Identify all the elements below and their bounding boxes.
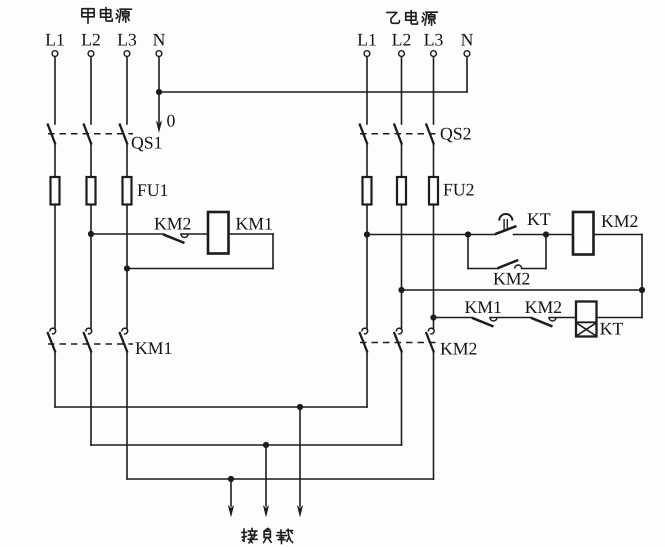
terminal L1 left xyxy=(52,51,58,57)
NO contact KM2 (self hold) xyxy=(498,260,519,268)
wire R3 to bus C xyxy=(433,353,435,480)
wire KM2 contact to KM1 coil xyxy=(181,233,208,235)
time-delay contact KT xyxy=(495,226,517,234)
node bus C tap xyxy=(228,476,234,482)
contactor KM2 pole 2 xyxy=(396,328,402,334)
fuse FU2 pole 3 xyxy=(429,177,438,205)
wire KM2 coil out xyxy=(594,234,643,236)
contactor KM2 pole 1 xyxy=(362,328,368,334)
wire L3 right drop xyxy=(433,57,435,124)
terminal L2 right xyxy=(399,51,405,57)
wire L1 to bus A xyxy=(54,353,56,408)
wire bus A xyxy=(55,406,367,408)
label FU2 xyxy=(444,184,453,196)
label power source A (Chinese title jia dianyuan) xyxy=(82,9,94,24)
terminal L2 left xyxy=(88,51,94,57)
fuse FU1 pole 1 xyxy=(51,177,60,205)
wire L1 left drop xyxy=(54,57,56,124)
wire branch down xyxy=(467,235,469,269)
node L3 tap xyxy=(124,265,130,271)
label KM2 main xyxy=(441,343,453,355)
node branch split xyxy=(465,231,471,237)
wire bus B xyxy=(91,444,402,446)
wire row3 c xyxy=(549,317,576,319)
fuse FU1 pole 3 xyxy=(123,177,132,205)
label QS1 xyxy=(132,137,144,152)
disconnect switch QS1 linkage xyxy=(48,133,133,135)
wire row1 left xyxy=(367,234,495,236)
switch QS1 pole 2 xyxy=(83,124,91,145)
label KM2 self hold xyxy=(494,273,506,285)
disconnect switch QS2 linkage xyxy=(360,133,440,135)
wire R3 QS2 to FU2 xyxy=(433,145,435,178)
contactor KM1 pole 3 xyxy=(122,328,128,334)
contactor KM2 linkage xyxy=(360,342,440,344)
wire KM1 coil out xyxy=(229,233,274,235)
label to load (Chinese jie fuzai) xyxy=(242,528,257,543)
fuse FU1 pole 2 xyxy=(87,177,96,205)
node R2 tap xyxy=(398,287,404,293)
terminal labels L1 L2 L3 N (right) xyxy=(358,34,367,46)
wire L3 left drop xyxy=(126,57,128,124)
wire R1 QS2 to FU2 xyxy=(366,145,368,178)
wire L3 QS1 to FU1 xyxy=(126,145,128,178)
wire row2 xyxy=(402,289,643,291)
wire R1 FU2 down xyxy=(366,205,368,329)
label KT contact xyxy=(528,213,540,225)
NC contact KM2 (row3) xyxy=(531,318,553,327)
wire L1 FU1 down xyxy=(54,205,56,329)
terminal L3 right xyxy=(431,51,437,57)
arrow neutral 0 xyxy=(158,92,160,122)
fuse FU2 pole 1 xyxy=(363,177,372,205)
wire row3 a xyxy=(434,317,473,319)
wire R3 FU2 down xyxy=(433,205,435,329)
coil KM1 xyxy=(208,212,229,254)
wire R2 to bus B xyxy=(401,353,403,446)
terminal N left xyxy=(156,51,162,57)
wire L2 QS1 to FU1 xyxy=(90,145,92,178)
wire L2 to bus B xyxy=(90,353,92,446)
node N junction xyxy=(156,89,162,95)
terminal N right xyxy=(464,51,470,57)
terminal L1 right xyxy=(364,51,370,57)
relay coil KT xyxy=(576,302,597,337)
contactor KM2 pole 3 xyxy=(428,328,434,334)
switch QS2 pole 3 xyxy=(426,124,434,145)
wire neutral bus xyxy=(159,91,467,93)
arrow load phase B xyxy=(265,445,267,506)
label power source B (Chinese title yi dianyuan) xyxy=(387,12,400,23)
node coil in xyxy=(543,231,549,237)
wire KT coil out xyxy=(597,317,643,319)
label KM2 nc xyxy=(525,301,537,313)
wire KT to node xyxy=(514,234,547,236)
wire L2 left drop xyxy=(90,57,92,124)
terminal L3 left xyxy=(124,51,130,57)
node bus A tap xyxy=(297,404,303,410)
label KM2 interlock xyxy=(155,218,167,230)
wire node to KM2 coil xyxy=(546,234,573,236)
switch QS2 pole 2 xyxy=(394,124,402,145)
label KT coil xyxy=(600,323,612,335)
label KM1 coil xyxy=(236,218,248,230)
node bus B tap xyxy=(263,442,269,448)
label 0 xyxy=(167,115,175,127)
wire R2 QS2 to FU2 xyxy=(401,145,403,178)
node R3 tap xyxy=(430,314,436,320)
switch QS1 pole 1 xyxy=(47,124,55,145)
node right rail xyxy=(639,287,645,293)
wire R1 to bus A xyxy=(366,353,368,408)
contactor KM1 pole 1 xyxy=(50,328,56,334)
arrow load phase A xyxy=(299,407,301,506)
contactor KM1 pole 2 xyxy=(86,328,92,334)
arrow load phase C xyxy=(230,479,232,506)
label QS2 xyxy=(441,128,453,143)
wire L3 to bus C xyxy=(126,353,128,480)
label FU1 xyxy=(138,184,147,196)
node R1 tap xyxy=(364,231,370,237)
fuse FU2 pole 2 xyxy=(397,177,406,205)
coil KM2 xyxy=(573,212,594,255)
switch QS1 pole 3 xyxy=(119,124,127,145)
node L2 tap xyxy=(88,231,94,237)
wire N right drop xyxy=(466,57,468,92)
wire L3 FU1 down xyxy=(126,205,128,329)
label KM2 coil xyxy=(602,215,614,227)
wire R2 FU2 down xyxy=(401,205,403,329)
wire row3 b xyxy=(490,317,531,319)
switch QS2 pole 1 xyxy=(359,124,367,145)
wire L1 right drop xyxy=(366,57,368,124)
wire L2 to KM2 contact xyxy=(91,233,163,235)
wire branch up xyxy=(522,268,546,270)
wire L2 right drop xyxy=(401,57,403,124)
contactor KM1 linkage xyxy=(48,343,133,345)
label KM1 main xyxy=(136,342,148,354)
NC contact KM1 (interlock) xyxy=(472,318,494,327)
NC contact KM2 (interlock) xyxy=(163,234,185,243)
wire N left drop xyxy=(158,57,160,92)
terminal labels L1 L2 L3 N (left) xyxy=(46,34,55,46)
wire L1 QS1 to FU1 xyxy=(54,145,56,178)
wire L2 FU1 down xyxy=(90,205,92,329)
wire bus C xyxy=(127,478,434,480)
label KM1 nc xyxy=(465,301,477,313)
